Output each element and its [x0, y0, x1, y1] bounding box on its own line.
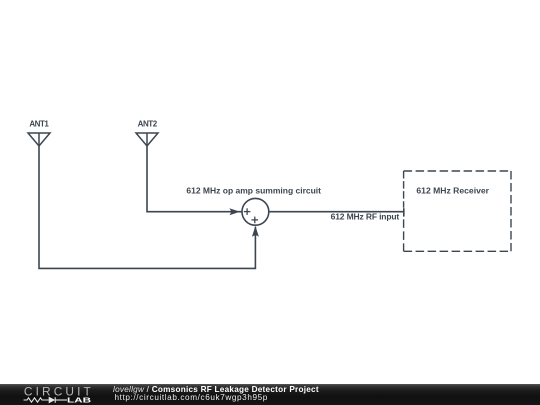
arrowhead into summing junction bottom: [252, 226, 259, 237]
antenna ANT1 label: [29, 119, 49, 128]
svg-text:612 MHz op amp summing circuit: 612 MHz op amp summing circuit: [186, 186, 321, 196]
antenna ANT1: [28, 133, 50, 146]
svg-text:http://circuitlab.com/c6uk7wgp: http://circuitlab.com/c6uk7wgp3h95p: [115, 393, 268, 402]
svg-text:612 MHz RF input: 612 MHz RF input: [331, 212, 400, 222]
footer bar: [0, 384, 540, 405]
CircuitLab logo resistor and diode symbol: [24, 397, 68, 403]
antenna ANT2 label: [138, 119, 158, 128]
CircuitLab logo CIRCUIT text: [24, 384, 91, 398]
wire summing junction to receiver: [269, 211, 404, 213]
net label 612 MHz RF input: [331, 212, 400, 222]
plus sign (bottom input): [252, 217, 259, 224]
svg-text:ANT1: ANT1: [29, 119, 49, 128]
receiver box label: [416, 185, 489, 195]
receiver dashed box: [404, 171, 511, 251]
wire from ANT2 down and right: [147, 146, 242, 212]
op-amp summing junction circle: [242, 198, 269, 225]
svg-text:LAB: LAB: [67, 398, 91, 405]
CircuitLab logo LAB text: [67, 398, 91, 405]
terminal tick at receiver: [403, 208, 405, 216]
CircuitLab logo diode triangle: [49, 397, 56, 404]
antenna ANT2: [136, 133, 158, 146]
summing junction label: [186, 186, 321, 196]
wire from ANT1 down: [39, 146, 255, 268]
footer url: [115, 393, 268, 402]
svg-text:ANT2: ANT2: [138, 119, 158, 128]
arrowhead into summing junction left: [229, 208, 240, 215]
footer project title: [113, 385, 319, 394]
plus sign (left input): [244, 208, 251, 215]
svg-text:612 MHz Receiver: 612 MHz Receiver: [416, 185, 489, 195]
